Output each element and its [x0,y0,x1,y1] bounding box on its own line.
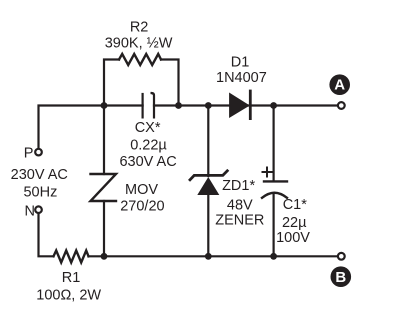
svg-text:D1: D1 [231,54,250,70]
svg-text:22µ: 22µ [282,215,307,231]
svg-text:390K, ½W: 390K, ½W [105,35,173,51]
svg-text:MOV: MOV [125,182,158,198]
svg-text:230V AC: 230V AC [11,167,68,183]
svg-text:100Ω, 2W: 100Ω, 2W [36,287,101,303]
svg-text:270/20: 270/20 [120,199,164,215]
svg-text:50Hz: 50Hz [23,185,57,201]
svg-text:100V: 100V [276,230,310,246]
svg-text:P: P [24,146,34,162]
svg-text:0.22µ: 0.22µ [130,138,167,154]
svg-text:CX*: CX* [135,120,161,136]
svg-text:48V: 48V [227,198,253,214]
svg-text:A: A [334,77,345,94]
svg-text:630V AC: 630V AC [119,154,176,170]
svg-text:C1*: C1* [283,197,308,213]
svg-text:ZENER: ZENER [215,213,264,229]
svg-text:1N4007: 1N4007 [216,70,267,86]
svg-text:R1: R1 [62,270,81,286]
svg-text:ZD1*: ZD1* [222,178,255,194]
svg-text:B: B [335,269,346,286]
svg-text:N: N [24,203,34,219]
svg-text:R2: R2 [130,19,149,35]
